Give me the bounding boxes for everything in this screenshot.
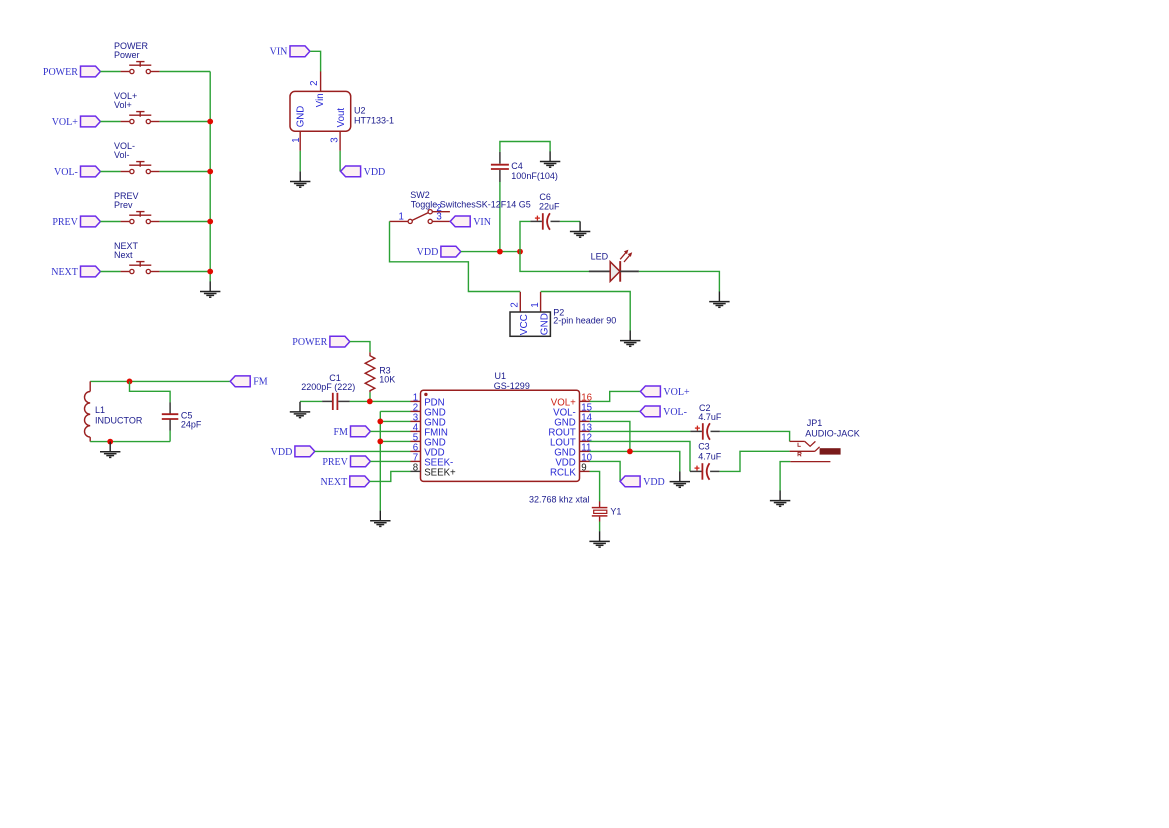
svg-text:HT7133-1: HT7133-1: [354, 116, 394, 126]
svg-text:8: 8: [413, 462, 418, 473]
wire node to LED anode: [520, 252, 589, 272]
wire tank top to FM port: [90, 380, 230, 382]
wire C2 to jack L: [720, 431, 790, 441]
svg-text:3: 3: [329, 137, 340, 142]
label C1: [301, 373, 355, 392]
svg-text:PREV: PREV: [52, 217, 78, 228]
U1 pin 11 GND: [554, 442, 591, 458]
net port FM (tank) (points left): [230, 376, 268, 388]
wire jack sleeve to ground: [780, 462, 790, 491]
label Y1: [529, 494, 621, 516]
wire P2 GND to ground: [541, 292, 631, 331]
svg-text:U2: U2: [354, 106, 366, 116]
wire VDD port to node: [461, 251, 520, 253]
svg-text:LED: LED: [591, 251, 609, 261]
svg-text:PREV: PREV: [322, 457, 348, 468]
U1 pin 10 VDD: [555, 452, 592, 468]
wire bus to U1 pin2: [380, 410, 410, 412]
svg-text:C4: C4: [511, 161, 523, 171]
net port VOL- (points left): [640, 406, 687, 418]
P2 pin 1 lead: [540, 292, 542, 312]
ground (Y1): [589, 531, 609, 547]
net port VOL- (points right): [54, 166, 100, 178]
wire C6 to ground: [560, 220, 580, 222]
label C5: [181, 410, 202, 429]
wire tank bottom: [90, 441, 170, 443]
label P2: [553, 307, 616, 325]
svg-text:10K: 10K: [379, 375, 395, 385]
svg-text:NEXT: NEXT: [51, 267, 78, 278]
U1 pin 7 SEEK-: [411, 452, 454, 468]
ground (tank): [100, 442, 120, 458]
SW2 pin numbers: [399, 203, 442, 223]
svg-text:Vout: Vout: [336, 108, 347, 128]
ground (C6): [570, 221, 590, 237]
wire C1/R3 to U1 pin1: [350, 400, 411, 402]
wire PREV port to U1 pin7: [370, 460, 410, 462]
wire POWER port to button: [100, 71, 120, 73]
pushbutton SW NEXT: [121, 262, 160, 274]
ground (U1 pin11): [670, 472, 690, 488]
wire trunk to ground: [209, 72, 211, 282]
svg-text:VIN: VIN: [270, 47, 288, 58]
wire U1 pin16 to VOL+ port: [590, 391, 641, 401]
U1 pin 2 GND: [411, 402, 446, 418]
net port VDD (supply) (points right): [417, 246, 461, 258]
svg-text:3: 3: [436, 211, 441, 222]
svg-text:VCC: VCC: [519, 314, 530, 335]
svg-text:100nF(104): 100nF(104): [511, 171, 558, 181]
svg-text:22uF: 22uF: [539, 202, 560, 212]
U2 pin 3: [339, 131, 341, 151]
wire LED cathode to ground: [639, 271, 720, 291]
P2 pin 2 lead: [519, 292, 521, 312]
wire U1 pin15 to VOL- port: [590, 410, 641, 412]
wire POWER port to R3: [350, 342, 370, 353]
net port POWER (R3) (points right): [292, 336, 350, 348]
label SW VOL- name/value: [114, 141, 135, 160]
svg-text:2200pF (222): 2200pF (222): [301, 382, 355, 392]
svg-text:Vol-: Vol-: [114, 150, 130, 160]
U1 pin 16 VOL+: [551, 392, 592, 408]
U1 pin 12 LOUT: [550, 432, 592, 448]
net port VOL+ (points right): [52, 116, 101, 128]
junction R3/C1/PDN: [367, 399, 373, 405]
pushbutton SW VOL-: [121, 162, 160, 174]
LED D1: [589, 250, 639, 282]
wire SW2 pin1 to P2 VCC: [390, 221, 521, 291]
wire button POWER to trunk: [160, 71, 211, 73]
svg-text:4.7uF: 4.7uF: [698, 451, 722, 461]
U1 pin-1 marker dot: [424, 393, 427, 396]
ground (LED): [709, 292, 729, 308]
U1 pin 14 GND: [554, 412, 592, 428]
U1 pin 5 GND: [411, 432, 446, 448]
svg-text:FM: FM: [253, 377, 268, 388]
U2 pin 2: [320, 72, 322, 92]
ground (C1): [290, 402, 310, 418]
svg-text:NEXT: NEXT: [321, 477, 348, 488]
svg-text:Vin: Vin: [315, 93, 326, 107]
wire C3 to jack R: [720, 451, 790, 471]
regulator U2 body: [290, 91, 351, 131]
label R3: [379, 365, 395, 384]
net port POWER (points right): [43, 66, 101, 78]
wire U1 pin10 to VDD port: [590, 461, 621, 481]
svg-text:Next: Next: [114, 250, 133, 260]
label SW PREV name/value: [114, 191, 139, 210]
net port VDD (U2 out) (points left): [341, 166, 386, 178]
net port VOL+ (points left): [640, 386, 690, 398]
label SW POWER name/value: [114, 41, 149, 60]
svg-text:2: 2: [510, 302, 521, 307]
junction trunk y=121.5: [207, 119, 213, 125]
svg-text:VDD: VDD: [364, 167, 386, 178]
U1 pin 3 GND: [411, 412, 446, 428]
wire PREV port to button: [100, 221, 120, 223]
svg-text:AUDIO-JACK: AUDIO-JACK: [805, 429, 860, 439]
junction VDD/C6/LED: [517, 249, 523, 255]
wire U1 pin13 ROUT to C2: [590, 430, 691, 432]
capacitor C5: [162, 402, 179, 430]
svg-text:C6: C6: [539, 192, 551, 202]
crystal Y1: [592, 501, 608, 521]
pushbutton SW PREV: [121, 212, 160, 224]
svg-text:GND: GND: [295, 106, 306, 128]
label L1: [95, 405, 143, 426]
svg-text:GS-1299: GS-1299: [494, 381, 530, 391]
U2 pin 1: [299, 131, 301, 151]
svg-text:VOL+: VOL+: [663, 387, 690, 398]
svg-text:1: 1: [530, 302, 541, 307]
toggle switch SW2: [390, 210, 451, 224]
wire button VOL+ to trunk: [160, 121, 211, 123]
label SW VOL+ name/value: [114, 91, 137, 110]
junction pin11/pin14: [627, 449, 633, 455]
U1 pin 4 FMIN: [411, 422, 448, 438]
svg-text:VOL-: VOL-: [663, 407, 687, 418]
resistor R3: [365, 352, 375, 392]
junction tank/C5: [127, 379, 133, 385]
svg-text:Y1: Y1: [610, 506, 621, 516]
U1 pin 13 ROUT: [548, 422, 592, 438]
label C3: [698, 442, 722, 462]
svg-text:U1: U1: [495, 371, 507, 381]
wire ground to C1: [300, 400, 322, 402]
svg-text:C3: C3: [698, 442, 710, 452]
polarized capacitor C3: [690, 463, 720, 480]
U1 pin 6 VDD: [411, 442, 445, 458]
wire button NEXT to trunk: [160, 271, 211, 273]
wire R3 to PDN node: [369, 392, 371, 401]
wire C4 bottom to VDD node: [499, 181, 501, 251]
wire U1 pin12 LOUT to C3: [590, 441, 691, 471]
svg-text:32.768 khz xtal: 32.768 khz xtal: [529, 494, 590, 504]
junction bus pin3: [377, 419, 383, 425]
svg-text:RCLK: RCLK: [550, 468, 576, 479]
svg-text:JP1: JP1: [807, 418, 823, 428]
wire U2 GND to ground: [299, 151, 301, 172]
svg-text:4.7uF: 4.7uF: [698, 412, 722, 422]
svg-text:INDUCTOR: INDUCTOR: [95, 415, 143, 425]
wire U1 pin14 to GND net: [590, 421, 630, 451]
ground (button trunk): [200, 281, 220, 297]
svg-text:VDD: VDD: [417, 247, 439, 258]
wire node to C6: [520, 221, 530, 251]
wire button PREV to trunk: [160, 221, 211, 223]
wire bus to U1 pin5: [380, 440, 410, 442]
svg-text:9: 9: [581, 462, 586, 473]
junction bus pin5: [377, 439, 383, 445]
wire VDD port to U1 pin6: [315, 450, 411, 452]
wire U1 pin11 GND to ground: [590, 451, 680, 471]
junction trunk y=221.5: [207, 219, 213, 225]
label C2: [698, 403, 722, 422]
label U1: [494, 371, 530, 391]
wire NEXT port to U1 pin8: [370, 471, 411, 481]
pushbutton SW VOL+: [121, 112, 160, 124]
audio jack JP1: [790, 441, 841, 461]
U1 pin 15 VOL-: [553, 402, 592, 418]
svg-text:Prev: Prev: [114, 200, 133, 210]
svg-text:VDD: VDD: [643, 477, 665, 488]
svg-text:2: 2: [309, 80, 320, 85]
wire GND bus vertical: [379, 411, 381, 510]
wire C5 top jog: [130, 381, 171, 402]
net port FM (U1) (points right): [333, 426, 370, 438]
ground (C4): [540, 151, 560, 167]
U1 pin 8 SEEK+: [411, 462, 457, 478]
wire C5 bottom: [169, 431, 171, 442]
svg-text:GND: GND: [540, 313, 551, 335]
net port VIN (SW2) (points left): [450, 216, 491, 228]
net port VDD (U1 pin10) (points left): [620, 476, 665, 488]
net port VDD (U1) (points right): [271, 446, 315, 458]
svg-text:VOL-: VOL-: [54, 167, 78, 178]
ground (P2): [620, 331, 640, 347]
label C6: [539, 192, 560, 212]
IC U1 GS-1299 body: [421, 390, 580, 481]
U1 pin 9 RCLK: [550, 462, 590, 478]
svg-text:SW2: SW2: [410, 190, 430, 200]
wire C4 top to ground: [500, 142, 550, 152]
net port PREV (points right): [322, 456, 370, 468]
label SW NEXT name/value: [114, 241, 139, 260]
label U2: [354, 106, 394, 126]
wire Y1 to ground: [599, 522, 601, 532]
capacitor C4: [491, 152, 509, 182]
svg-text:POWER: POWER: [43, 67, 78, 78]
svg-text:Toggle.SwitchesSK-12F14 G5: Toggle.SwitchesSK-12F14 G5: [411, 199, 531, 209]
wire button VOL- to trunk: [160, 171, 211, 173]
net port NEXT (points right): [51, 266, 100, 278]
junction trunk y=171.5: [207, 169, 213, 175]
label SW2: [410, 190, 530, 210]
svg-text:1: 1: [399, 211, 404, 222]
label JP1: [805, 418, 860, 438]
svg-text:2-pin header 90: 2-pin header 90: [553, 316, 616, 326]
wire NEXT port to button: [100, 271, 120, 273]
wire VOL- port to button: [100, 171, 120, 173]
net port VIN (points right): [270, 46, 310, 58]
svg-text:L1: L1: [95, 405, 105, 415]
svg-text:VOL+: VOL+: [52, 117, 79, 128]
U1 pin 1 PDN: [411, 392, 445, 408]
wire FM port to U1 pin4: [370, 430, 410, 432]
junction tank ground: [107, 439, 113, 445]
ground (U1 GND bus): [370, 511, 390, 527]
inductor L1: [84, 381, 90, 441]
capacitor C1: [322, 393, 350, 410]
svg-text:SEEK+: SEEK+: [424, 468, 456, 479]
junction trunk y=271.5: [207, 269, 213, 275]
net port NEXT (points right): [321, 476, 370, 488]
wire U2 Vout to VDD port: [339, 151, 341, 172]
svg-text:24pF: 24pF: [181, 420, 202, 430]
polarized capacitor C2: [690, 423, 720, 440]
svg-text:Vol+: Vol+: [114, 100, 132, 110]
wire U1 pin9 RCLK to Y1: [590, 471, 600, 501]
svg-text:FM: FM: [333, 427, 348, 438]
polarized capacitor C6: [530, 213, 560, 230]
junction VDD/C4: [497, 249, 503, 255]
svg-text:VDD: VDD: [271, 447, 293, 458]
svg-text:POWER: POWER: [292, 337, 327, 348]
wire bus to U1 pin3: [380, 420, 410, 422]
wire VOL+ port to button: [100, 121, 120, 123]
net port PREV (points right): [52, 216, 100, 228]
ground (jack): [770, 491, 790, 507]
pushbutton SW POWER: [121, 62, 160, 74]
label C4: [511, 161, 558, 181]
svg-text:Power: Power: [114, 50, 140, 60]
header P2 body: [510, 312, 550, 336]
ground (U2): [290, 171, 310, 187]
wire VIN to U2 pin2: [310, 51, 320, 71]
svg-text:VIN: VIN: [473, 217, 491, 228]
